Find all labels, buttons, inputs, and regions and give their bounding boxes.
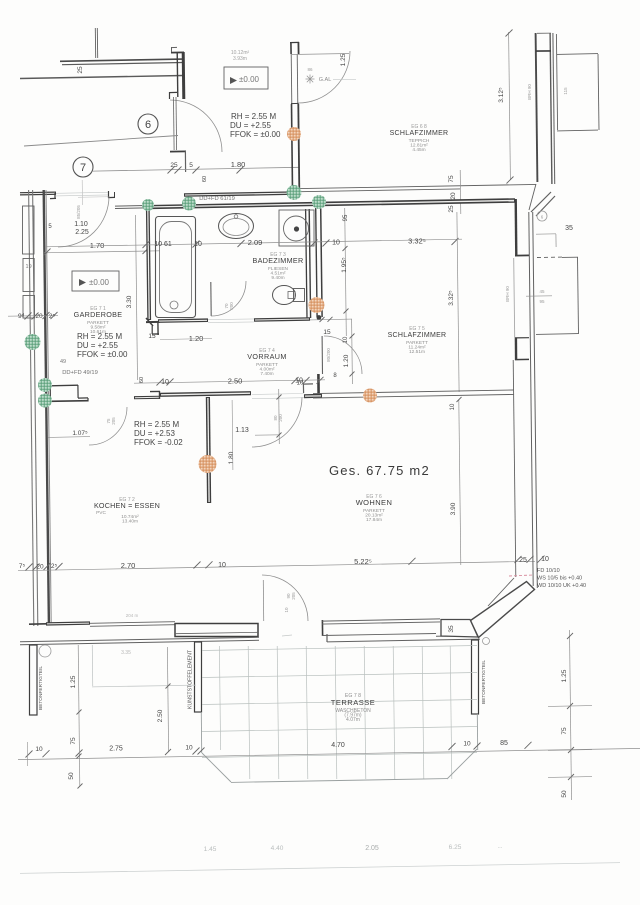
svg-text:10: 10: [185, 745, 193, 752]
svg-text:45: 45: [539, 289, 545, 294]
svg-text:VORRAUM: VORRAUM: [247, 352, 287, 361]
svg-text:13.40m: 13.40m: [122, 519, 138, 525]
svg-text:75: 75: [561, 727, 568, 735]
svg-text:BRH 90: BRH 90: [527, 84, 532, 100]
svg-text:DU = +2.53: DU = +2.53: [134, 429, 175, 438]
svg-text:RH = 2.55 M: RH = 2.55 M: [77, 332, 122, 341]
svg-text:20: 20: [36, 564, 44, 571]
svg-text:1.25: 1.25: [561, 669, 568, 682]
svg-text:204 m: 204 m: [126, 613, 139, 618]
svg-text:75: 75: [448, 175, 455, 183]
svg-text:80/200: 80/200: [326, 348, 331, 362]
svg-text:49: 49: [60, 359, 66, 365]
svg-text:RH = 2.55 M: RH = 2.55 M: [134, 420, 179, 429]
svg-text:75: 75: [70, 737, 77, 745]
svg-text:Ges. 67.75 m2: Ges. 67.75 m2: [329, 463, 430, 478]
svg-text:10: 10: [284, 607, 289, 613]
svg-text:1.10: 1.10: [74, 221, 88, 228]
svg-text:1.07⁵: 1.07⁵: [72, 430, 88, 437]
svg-text:WOHNEN: WOHNEN: [356, 498, 393, 507]
svg-text:3.32⁵: 3.32⁵: [408, 237, 426, 246]
svg-text:25: 25: [77, 66, 84, 74]
svg-text:2⁵: 2⁵: [49, 313, 56, 320]
svg-text:DD+FD 49/19: DD+FD 49/19: [62, 370, 98, 376]
svg-text:1.95⁵: 1.95⁵: [341, 257, 348, 273]
svg-text:50: 50: [68, 772, 75, 780]
svg-text:19: 19: [26, 264, 32, 270]
svg-text:4.07m: 4.07m: [346, 717, 360, 723]
svg-text:KOCHEN = ESSEN: KOCHEN = ESSEN: [94, 501, 160, 510]
svg-text:DU = +2.55: DU = +2.55: [230, 121, 271, 130]
svg-text:4.40: 4.40: [271, 845, 284, 852]
svg-text:1.80: 1.80: [231, 160, 246, 169]
svg-text:25: 25: [170, 162, 178, 169]
svg-text:TERRASSE: TERRASSE: [331, 698, 375, 707]
svg-text:G.AL: G.AL: [319, 77, 332, 83]
svg-text:50: 50: [561, 790, 568, 798]
svg-text:2.75: 2.75: [109, 746, 123, 753]
svg-text:15: 15: [323, 329, 331, 336]
svg-text:FFOK = ±0.00: FFOK = ±0.00: [230, 130, 281, 139]
svg-text:6.25: 6.25: [449, 844, 462, 851]
svg-text:BRH 90: BRH 90: [505, 286, 510, 302]
svg-text:BETONFERTIGTEIL: BETONFERTIGTEIL: [38, 666, 44, 710]
svg-text:86: 86: [307, 67, 313, 72]
svg-text:115: 115: [563, 87, 568, 95]
svg-text:85/205: 85/205: [76, 205, 81, 219]
svg-text:12.51m: 12.51m: [409, 349, 425, 355]
svg-text:35: 35: [448, 625, 455, 633]
svg-text:15: 15: [148, 333, 156, 340]
svg-text:±0.00: ±0.00: [89, 278, 110, 287]
svg-text:200: 200: [229, 302, 234, 310]
svg-text:10: 10: [541, 556, 549, 563]
svg-text:5.22⁵: 5.22⁵: [354, 557, 372, 566]
svg-text:10: 10: [332, 240, 340, 247]
svg-text:SCHLAFZIMMER: SCHLAFZIMMER: [390, 130, 449, 137]
svg-text:3.32⁵: 3.32⁵: [448, 290, 455, 306]
svg-text:7⁵: 7⁵: [19, 563, 26, 570]
svg-text:2.50: 2.50: [157, 709, 164, 722]
svg-text:DU = +2.55: DU = +2.55: [77, 341, 118, 350]
svg-text:60: 60: [202, 176, 208, 182]
svg-text:KUNSTSTOFFELEMENT: KUNSTSTOFFELEMENT: [188, 649, 194, 709]
svg-text:9.40m: 9.40m: [271, 275, 284, 281]
svg-text:95: 95: [539, 299, 545, 304]
svg-text:1.13: 1.13: [235, 427, 249, 434]
svg-text:60: 60: [139, 377, 145, 383]
svg-text:2.25: 2.25: [75, 229, 89, 236]
svg-text:10: 10: [450, 403, 456, 410]
svg-text:205: 205: [291, 592, 296, 600]
svg-text:4.45m: 4.45m: [412, 147, 425, 153]
svg-text:1.45: 1.45: [204, 846, 217, 853]
svg-text:2.50: 2.50: [228, 377, 243, 386]
svg-text:WD 10/10 UK +0.40: WD 10/10 UK +0.40: [537, 583, 586, 589]
svg-text:7: 7: [80, 162, 86, 174]
svg-text:GARDEROBE: GARDEROBE: [74, 310, 123, 319]
svg-text:1.80: 1.80: [228, 451, 235, 464]
svg-text:1.25: 1.25: [340, 53, 347, 66]
svg-text:3.30: 3.30: [126, 295, 133, 308]
svg-text:3.35: 3.35: [121, 650, 131, 656]
svg-text:BADEZIMMER: BADEZIMMER: [253, 256, 304, 265]
svg-text:±0.00: ±0.00: [239, 75, 260, 84]
svg-text:4.70: 4.70: [331, 742, 345, 749]
svg-text:BETONFERTIGTEIL: BETONFERTIGTEIL: [481, 660, 487, 704]
svg-text:205: 205: [111, 417, 116, 425]
svg-text:FFOK = ±0.00: FFOK = ±0.00: [77, 350, 128, 359]
svg-text:2.05: 2.05: [365, 845, 379, 852]
svg-text:...: ...: [497, 844, 502, 850]
svg-text:3.93m: 3.93m: [233, 56, 247, 62]
svg-text:10 61: 10 61: [154, 241, 172, 248]
svg-text:10: 10: [463, 741, 471, 748]
svg-text:200: 200: [278, 414, 283, 422]
svg-text:1.25: 1.25: [70, 675, 77, 688]
svg-text:25: 25: [519, 557, 527, 564]
svg-text:17.84m: 17.84m: [366, 517, 382, 523]
svg-text:3.12⁵: 3.12⁵: [498, 87, 505, 103]
svg-text:3.90: 3.90: [450, 502, 457, 515]
svg-text:6: 6: [145, 119, 151, 131]
svg-text:5: 5: [189, 162, 193, 169]
svg-text:2.70: 2.70: [121, 561, 136, 570]
svg-text:35: 35: [565, 225, 573, 232]
svg-text:85: 85: [500, 740, 508, 747]
svg-text:10: 10: [297, 381, 304, 387]
svg-text:10: 10: [218, 562, 226, 569]
svg-text:2.09: 2.09: [248, 238, 263, 247]
svg-text:20: 20: [450, 192, 457, 200]
svg-text:10: 10: [35, 746, 43, 753]
svg-text:FFOK = -0.02: FFOK = -0.02: [134, 438, 183, 447]
svg-text:FD 10/10: FD 10/10: [537, 568, 560, 574]
svg-text:7.40m: 7.40m: [260, 371, 273, 377]
svg-text:95: 95: [343, 214, 349, 221]
svg-text:RH = 2.55 M: RH = 2.55 M: [231, 112, 276, 121]
svg-text:WS 10/5 bis +0.40: WS 10/5 bis +0.40: [537, 576, 582, 582]
svg-text:10: 10: [343, 336, 349, 343]
svg-text:9ᵈ: 9ᵈ: [18, 313, 25, 320]
svg-text:1.20: 1.20: [343, 354, 350, 367]
svg-text:DD+FD 61/19: DD+FD 61/19: [199, 196, 235, 202]
svg-text:PVC: PVC: [96, 510, 106, 516]
svg-text:25: 25: [448, 205, 455, 213]
svg-text:SCHLAFZIMMER: SCHLAFZIMMER: [388, 332, 447, 339]
